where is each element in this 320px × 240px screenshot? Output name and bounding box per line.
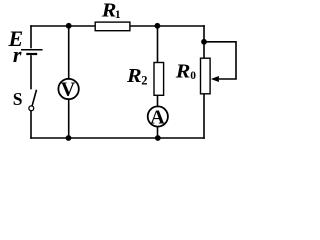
svg-text:S: S	[13, 89, 23, 109]
svg-text:V: V	[61, 78, 76, 100]
svg-text:2: 2	[141, 73, 147, 87]
svg-text:0: 0	[190, 70, 196, 82]
svg-text:R: R	[126, 65, 142, 87]
svg-text:r: r	[13, 42, 22, 67]
svg-text:1: 1	[115, 9, 121, 21]
svg-text:R: R	[175, 60, 191, 82]
svg-text:A: A	[150, 107, 165, 129]
